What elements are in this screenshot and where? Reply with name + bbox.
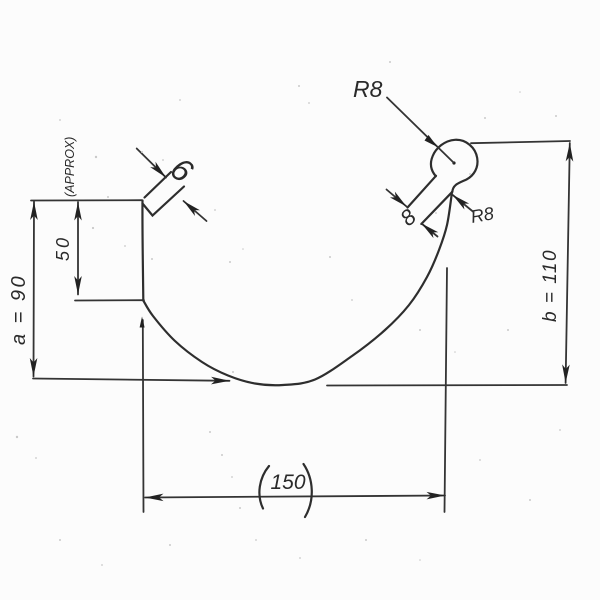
R8 lower leader [453,195,474,212]
dim 150 left extension arrowhead up [140,317,145,328]
dim 6 arrow upper [137,149,166,178]
R8 top leader line [387,98,454,163]
dim 8 arrow lower [422,224,438,237]
top-left extension line [31,199,142,201]
bead center dot [452,161,455,164]
svg-text:b = 110: b = 110 [540,249,561,322]
bottom-right baseline [327,384,567,387]
dim 6 arrow lower [184,201,207,221]
bead circle R8 [431,140,478,192]
dim 150 horizontal line [145,496,445,498]
dim a=90 vertical line [33,202,36,377]
dim 150 right extension line [445,268,448,512]
dim 8 arrow upper [387,190,407,207]
svg-text:50: 50 [53,235,73,261]
svg-text:R8: R8 [469,203,495,227]
bead neck lower line [421,192,452,224]
gutter profile: front vertical edge [141,201,144,301]
svg-text:R8: R8 [353,76,383,102]
front edge fold line A [145,172,172,198]
dim b=110 vertical line [566,143,570,383]
R8 top leader arrowhead [425,135,438,147]
front edge fold hem V [143,187,185,216]
dim 150 left extension line [142,320,145,512]
gutter profile: main curve [143,192,452,385]
svg-text:(APPROX): (APPROX) [63,137,77,197]
scan speckle noise [16,61,561,566]
svg-text:150: 150 [270,471,305,494]
dim 50 bottom extension [75,299,144,301]
bead neck upper line [408,176,437,208]
dim 150 right paren [304,464,312,517]
left bottom line with arrow [33,379,230,381]
dim 50 vertical line [77,202,79,295]
top-right extension line [471,141,570,143]
dim 150 left paren [259,466,269,509]
svg-text:a = 90: a = 90 [8,274,30,345]
